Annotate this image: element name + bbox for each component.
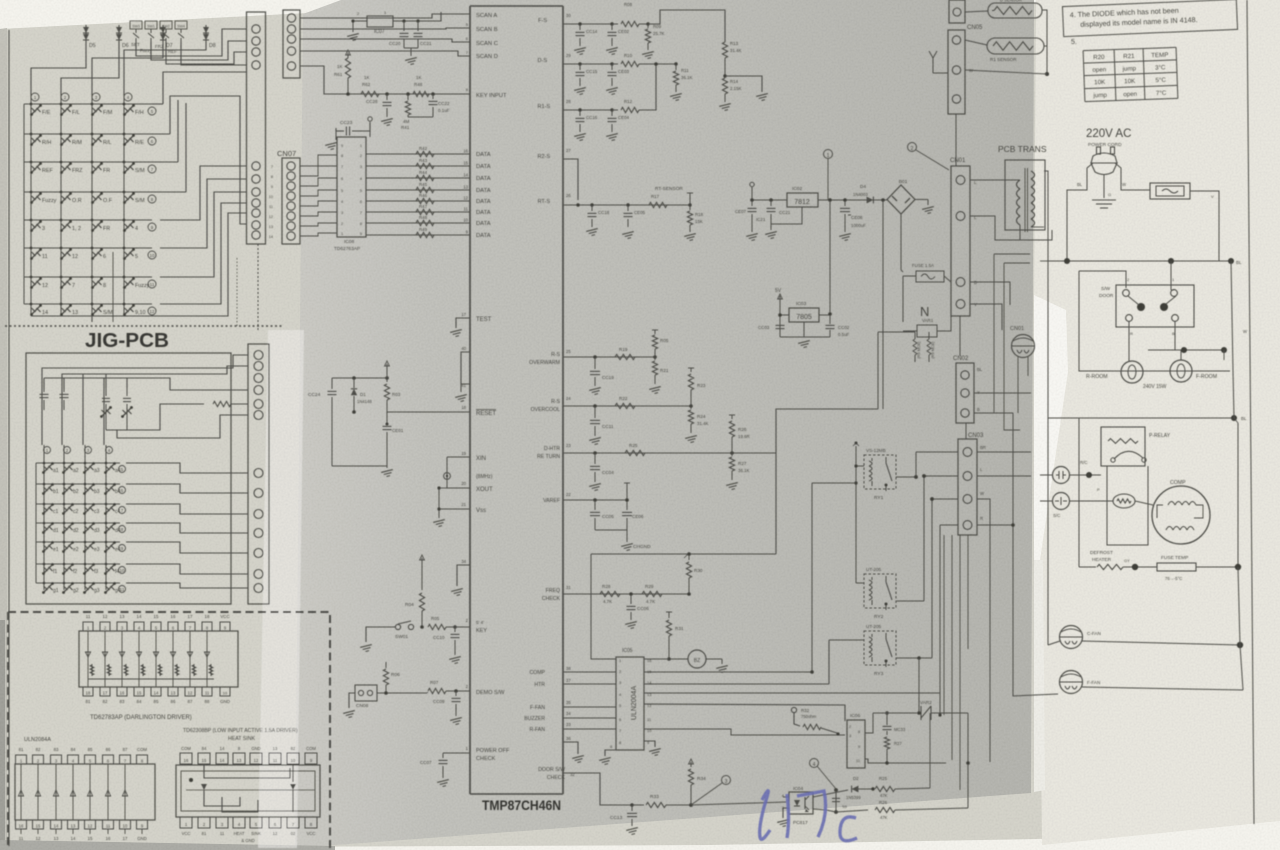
IC05 ground pin 8 <box>605 750 616 756</box>
capacitor CC09 <box>446 690 470 692</box>
dotted joiner lines below strips <box>257 244 259 330</box>
wire CN08 left down to ground <box>349 693 355 708</box>
relay RY3 coil feed <box>829 639 864 641</box>
Vcc arrow above R03 <box>386 366 388 378</box>
JIG-PCB outer box <box>26 353 231 604</box>
IC06 pin 11 to bottom rail <box>865 759 946 763</box>
wire and ground left of IC07 <box>353 20 367 22</box>
capacitor CC02 0.5uF <box>819 314 830 316</box>
resistor R14 2.15K <box>723 74 726 77</box>
resistor R12 on R1-S <box>612 109 618 111</box>
circled note 4 with pointer <box>810 759 819 768</box>
JIG-PCB resistor near strip <box>213 401 231 406</box>
JIG-PCB dotted top border <box>5 325 282 327</box>
power plug symbol <box>1091 147 1117 175</box>
wire IC05 pin12 to IC06 pin2 <box>644 704 845 721</box>
wires CN07 to IC08 <box>300 155 337 236</box>
diode D5 <box>85 25 87 44</box>
wires below motor symbol <box>1017 357 1019 413</box>
resistor R25b 47K <box>871 787 874 790</box>
relay RY1 VS-12MB <box>864 455 896 489</box>
capacitor CC04 <box>593 451 597 455</box>
wires CN01 lower circles <box>970 282 1010 305</box>
switch SW01 <box>395 624 400 629</box>
COMP compressor circle <box>1152 486 1210 544</box>
capacitor CE05 on RT-S <box>626 203 629 206</box>
wire bus to left page <box>1040 260 1048 262</box>
wire from D7 to matrix col3 <box>92 44 163 96</box>
resistor R48 1K <box>413 91 429 96</box>
left vertical bus of key matrix <box>23 104 25 304</box>
resistor R21 vertical with ground <box>654 357 656 360</box>
wire from D8 to matrix col4 <box>124 44 206 96</box>
key matrix rows 5-8 wires to CN07 <box>31 166 246 322</box>
right vertical bus <box>1231 261 1233 371</box>
wires rows 1-4 right risers <box>163 72 246 224</box>
wire CN05 to CN01 <box>955 114 957 166</box>
overexposed white patch right of middle band <box>1034 295 1068 560</box>
switches SW1-SW4 group <box>130 21 187 54</box>
wires SCAN A-D from key section <box>300 14 470 56</box>
diode D4 1N4003 <box>867 197 874 204</box>
P-RELAY heater zigzag <box>1108 439 1138 444</box>
wire PC817 to diode D2 <box>813 790 848 797</box>
bridge right vertex to ground <box>915 199 928 201</box>
capacitor CE02 on F-S <box>610 22 613 25</box>
TD62308BP top pins <box>180 746 317 764</box>
top connector strip above CN05 <box>949 0 965 23</box>
wire IC05 pin15 nested corner <box>644 671 812 673</box>
diode D1 1N4148 and resistor R03 network <box>332 377 387 379</box>
capacitor CE07 <box>751 200 753 206</box>
capacitor CE04 on R1-S <box>610 108 613 111</box>
COMP internal coils <box>1135 501 1203 530</box>
capacitor CC14 on F-S <box>578 22 581 25</box>
ground under CC20/CC21 <box>404 47 418 49</box>
diode D6 <box>118 25 120 44</box>
wire IC05 pin14 to RY3 riser <box>644 683 829 685</box>
main bus BL with junction dots <box>1048 260 1232 262</box>
key matrix rows with key switches <box>24 103 156 316</box>
capacitor CE03 on D-S <box>610 62 613 65</box>
capacitor CC20 <box>403 21 405 31</box>
diode D8 <box>205 25 207 44</box>
capacitor CC28 <box>385 92 389 96</box>
capacitor CC07 <box>442 753 444 758</box>
wire from D6 to matrix col2 <box>61 44 119 96</box>
IC IC05 ULN2004A body <box>616 657 644 750</box>
start relay oval <box>1113 494 1135 508</box>
capacitor CC13 with ground <box>630 803 634 807</box>
long vertical to relay loop <box>882 200 884 409</box>
jumper table R20/R21/TEMP <box>1083 47 1178 101</box>
P-RELAY box <box>1101 427 1145 466</box>
capacitor CC21 with elbow <box>770 200 772 206</box>
wire SW01 to ground <box>366 627 395 642</box>
connector CN03 strip <box>958 439 977 535</box>
resistor R17 on RT-S <box>649 202 667 207</box>
wire IC07 to caps CC20 CC21 <box>393 20 427 22</box>
relay coil feed bus with arrow <box>855 446 857 583</box>
resistor R05 <box>414 626 424 628</box>
resistor R06 vertical <box>385 662 387 668</box>
resistor R10 on D-S <box>612 63 618 65</box>
diode D2 1N5399 <box>852 786 859 793</box>
key matrix column bus lines <box>31 96 124 316</box>
dashed section border box <box>8 612 330 850</box>
TD62308BP bottom pins <box>180 817 317 843</box>
connector strip A (long, x250) <box>247 12 266 244</box>
relay RY2 output wire <box>896 600 924 602</box>
resistor R22 <box>615 403 635 408</box>
box around relay section <box>1107 466 1148 545</box>
resistor R23 vertical <box>689 404 693 408</box>
connector CN02 strip <box>956 363 974 423</box>
PC817 internals <box>794 800 800 806</box>
note box 4 <box>1062 0 1237 37</box>
buzzer BZ <box>644 658 688 660</box>
microcontroller TMP87CH46N body <box>469 6 471 794</box>
overexposed swath on left page right margin <box>258 330 304 848</box>
CHGND rail and ground <box>595 529 627 531</box>
wire caps to scan elbow <box>427 12 441 21</box>
long vertical 7812 output to 7805 <box>829 200 831 315</box>
resistor R41 4M <box>406 92 410 96</box>
TD62783AP top pins <box>83 614 230 631</box>
vertical bus wires to CN03 <box>916 451 958 453</box>
junction dot after heater <box>1123 566 1157 568</box>
C-FAN motor <box>1060 626 1101 649</box>
resistor R27 36.1K with ground <box>731 453 733 456</box>
connector CN08 <box>355 685 377 701</box>
P-RELAY contact arc <box>1114 451 1143 459</box>
resistor R34 vertical with arrow <box>689 803 693 807</box>
wires CN02 right <box>974 392 1031 394</box>
resistor R13 31.4K <box>722 42 727 58</box>
circled note 1 <box>824 150 833 159</box>
antenna Y symbol <box>932 58 934 73</box>
data lines IC08 to MCU with resistors R42-R49 <box>366 146 491 239</box>
IC05 left pin numbers <box>619 658 622 745</box>
rail R41 CC22 to ground <box>408 116 433 118</box>
resistor R26b 47K lower rail <box>813 809 826 810</box>
resistor R61 1K (pull-up) <box>345 58 350 78</box>
relay RY1 output wire <box>896 476 916 478</box>
right page border line <box>1247 0 1254 824</box>
second bus BL wire <box>1048 417 1234 419</box>
relay RY3 UT-205 <box>864 631 896 665</box>
resistor R30 vertical <box>687 592 691 596</box>
fuse box on W wire <box>1150 183 1190 199</box>
resistor R19 <box>615 354 635 359</box>
relay RY3 output wire <box>896 657 932 659</box>
lamp F-ROOM <box>1170 360 1192 382</box>
wire F-S up to R13 node <box>648 10 725 42</box>
wire bus to door switch pin1 <box>1170 261 1172 290</box>
ground under CE01 <box>386 466 388 468</box>
IC IC07 <box>367 16 393 27</box>
circle pin and resistor R32 750ohm <box>791 707 796 712</box>
circle S/C <box>1053 493 1070 510</box>
resistor R08 on F-S <box>612 23 618 25</box>
IC05 right pin numbers <box>647 658 652 745</box>
wire IC05 pin13 <box>644 692 940 694</box>
capacitor CE01 <box>386 412 388 424</box>
left page left-edge shading <box>0 28 7 848</box>
C-FAN bus wire <box>1048 641 1060 645</box>
IC ULN2084A body <box>15 764 155 820</box>
loop wire around lower-right block <box>591 553 776 555</box>
circle R/C <box>1053 467 1070 484</box>
resistor R07 <box>428 688 446 693</box>
capacitor CC11 <box>593 404 597 408</box>
resistor R18 15K <box>689 205 691 210</box>
handwritten blue annotation <box>760 791 857 841</box>
ULN2084A top pins <box>16 747 148 764</box>
wires SW1-SW4 to connector strip A <box>136 29 246 56</box>
wire oval to COMP <box>1135 501 1153 505</box>
capacitor CC15 on D-S <box>578 62 581 65</box>
capacitor CC22 0.1uF <box>431 92 435 96</box>
wires CN03 right side <box>977 451 1031 453</box>
pin number ticks between strips <box>269 165 273 239</box>
relay RY2 UT-205 <box>864 574 896 608</box>
resistor R29 4.7K <box>642 591 662 596</box>
IC06 pin8 wire up to VAR2 rail <box>865 713 873 733</box>
IC08 inner pin ticks <box>341 144 362 236</box>
connector strip CN07 <box>282 158 300 244</box>
capacitor CC21 <box>417 21 419 31</box>
F-FAN bus wire <box>1082 687 1243 690</box>
wire fuse to right bus <box>1190 191 1219 261</box>
left loop wires defrost section <box>1078 418 1080 567</box>
JIG-PCB connector strip (13 circles) <box>248 344 269 604</box>
junction dots near CN03 <box>930 497 934 501</box>
wire CN03 R join <box>977 524 1013 526</box>
wires CN01 to transformer <box>970 179 1020 181</box>
transformer secondary output wires <box>1044 171 1048 645</box>
ULN2084A internal diodes <box>18 764 127 820</box>
wire from D5 to matrix col1 <box>31 44 86 96</box>
S/W DOOR contacts <box>1123 290 1130 297</box>
wire loop from FREQ block to relay feed <box>776 409 878 554</box>
wire FREQ loop to IC05 pin1 <box>591 554 616 659</box>
bridge bottom vertex wire to fuse area <box>900 214 902 270</box>
connector CN01 strip <box>951 166 970 316</box>
plug ground <box>1103 175 1105 198</box>
bottom table-surface strip under left page <box>0 840 335 850</box>
test point stub left of 7812 <box>751 187 753 200</box>
wire CN08 to R07 <box>377 692 427 694</box>
resistor R62 1K <box>361 91 379 96</box>
key matrix row exit wires to connectors <box>152 104 186 192</box>
capacitor CC18 on RT-S <box>590 203 593 206</box>
resistor R26 19.6R vertical <box>730 451 734 455</box>
resistor R33 <box>632 804 644 806</box>
wire 5V node into 7805 <box>780 314 789 316</box>
left page border line <box>8 30 10 846</box>
wires right of IC06 block <box>967 713 969 808</box>
wires door switch to lamps <box>1128 321 1130 361</box>
IC TD62783AP (darlington driver) body <box>79 631 238 687</box>
lamp loop outer rectangle <box>1079 271 1230 371</box>
capacitor S9 between rails <box>835 790 837 812</box>
resistor R28 4.7K <box>600 591 620 596</box>
ULN2084A bottom pins <box>16 820 148 841</box>
circled note 3 with pointer <box>722 776 731 785</box>
long vertical wires below CN03 <box>943 535 945 715</box>
wire IC05 pin10 step to IC06 pin3 <box>644 729 845 735</box>
capacitor CC05 <box>593 498 597 502</box>
resistor R03 vertical <box>386 378 388 382</box>
capacitor MC33 and resistor R27 <box>885 711 888 714</box>
R13/R14 tap wire <box>725 76 762 92</box>
wire KEY INPUT from strip B <box>300 66 470 94</box>
capacitor CC06 with ground <box>629 592 633 596</box>
riser to relay coil bus <box>811 483 813 672</box>
F-FAN motor <box>1060 671 1101 694</box>
wire R33 node to PC817 <box>691 802 786 805</box>
R1 sensor rounded box <box>987 38 1044 54</box>
D sensor rounded box <box>988 3 1042 18</box>
JIG-PCB inner key matrix <box>36 445 126 594</box>
sensor wires to CN05 <box>965 11 988 12</box>
ceramic resonator 8MHz <box>446 457 448 488</box>
wire IC05 pin9 stub <box>644 741 655 747</box>
capacitor CC19 <box>593 355 597 359</box>
resistor R25 <box>625 450 645 455</box>
wire S/C to start oval <box>1040 500 1052 502</box>
7805 ground rail <box>779 330 781 337</box>
resistor R31 vertical <box>668 612 670 618</box>
JIG-PCB middle capacitor components <box>40 388 133 430</box>
resistor R09 25.7K <box>646 22 649 25</box>
JIG-PCB top nested wires <box>42 355 248 445</box>
junction dots above F-ROOM <box>1148 349 1224 351</box>
ground left of IC08 <box>335 131 337 140</box>
resistor R04 vertical <box>421 560 423 590</box>
IC TD62308BP body <box>176 765 320 817</box>
resistor R24 31.4K with ground <box>690 406 692 409</box>
JIG-PCB matrix row wires to strip <box>126 463 248 588</box>
connector CN05 strip <box>948 30 965 114</box>
wire second bus down right side <box>1234 418 1238 423</box>
key matrix circled column numbers 1-4 <box>31 93 132 101</box>
IC IC06 body <box>847 720 865 768</box>
7812 output wire <box>818 199 887 201</box>
capacitor CC16 on R1-S <box>578 108 581 111</box>
right page (lightest sheet) <box>1034 0 1280 845</box>
TD62783AP bottom pins <box>83 687 230 704</box>
capacitor CC10 <box>453 625 457 629</box>
connector strip B (top right) <box>283 10 300 78</box>
SCAN pin labels <box>466 13 498 60</box>
bridge rectifier B01 <box>887 185 915 214</box>
wire CN03 W down right side <box>977 499 990 762</box>
transformer PCB TRANS <box>1005 160 1045 232</box>
TD62308BP internals <box>186 764 315 812</box>
resistor R11 36.1K <box>674 62 677 65</box>
IC IC08 TD62763AP body <box>337 137 366 237</box>
varistor VAR2 <box>873 712 917 714</box>
junction dot right of R/C <box>1040 474 1052 476</box>
nested elbow wires right of CN01 <box>993 254 995 413</box>
capacitor CE06 <box>626 483 628 510</box>
resistor R05 pull-up vertical <box>653 355 657 359</box>
capacitor CE08 1000uF <box>844 200 846 206</box>
wire CN02 to CN03 <box>965 423 967 439</box>
TD62783AP internal diodes <box>85 631 214 687</box>
circled note 2 with pointer <box>908 143 917 152</box>
wire CN01 bottom to CN02 <box>959 316 961 356</box>
diode D7 <box>162 25 164 44</box>
lamp R-ROOM <box>1121 361 1143 383</box>
